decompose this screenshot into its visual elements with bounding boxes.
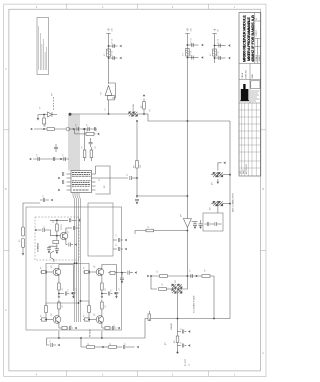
title block outline [239,13,261,176]
node W4 R6 [84,128,86,130]
R5 arrow [94,133,96,135]
node W4 bus [68,128,70,130]
wire [95,346,109,348]
Q1b base wire [40,319,53,321]
svg-text:TCXO: TCXO [61,224,63,230]
node emitter1 [58,293,60,295]
RF out wire from cell2 [108,272,127,274]
wire row y134 [75,133,87,135]
lower row resistor [62,326,67,329]
ground arrow L5 [22,253,25,256]
input wire2 [45,230,60,236]
wire to mixer [167,288,172,290]
node W4 b [73,128,75,130]
wire W1 jog [148,114,230,121]
emitter arrow [75,243,78,246]
node D4 [43,114,45,116]
wire U2 down [186,228,188,277]
D2 label [212,181,214,185]
node emitter2 [101,293,103,295]
B2 right cap2 wire [113,248,117,250]
rail C top sublabel [218,28,220,31]
node y338 c [80,337,82,339]
node W2 rail B [187,195,189,197]
B2 right cap1 wire [113,239,117,241]
feed caps above box [43,198,44,202]
node D3 [229,203,231,205]
node left [150,275,152,277]
D2 down arrow [217,182,220,185]
IC U3 body [71,171,92,193]
wire W1 from U1 node to diode [109,113,129,115]
Q1 emitter wire [65,239,67,245]
title block cage cell divider [239,79,261,81]
wire W3 [135,230,187,232]
TCXO bottom kink wire [51,251,55,262]
wire mixer to railB [183,276,188,289]
staircase ground [72,296,75,299]
bus wires [69,115,79,171]
svg-text:B: B [262,189,264,191]
rail C wire [214,34,216,64]
wire [117,346,123,348]
rail B top tick [185,33,189,35]
node rail A branch2 [108,57,110,59]
emitter resistor [101,283,104,290]
svg-text:Q?: Q? [94,264,96,268]
transistor Q2a [96,268,104,276]
cell labels [51,264,96,316]
svg-text:R?: R? [84,315,86,317]
arrow end [137,346,140,349]
left pin arrows [58,177,61,180]
border zone tick top [66,4,68,9]
svg-text:C?: C? [105,108,107,110]
svg-text:C?: C? [181,342,183,344]
C11 C12 labels [76,123,89,126]
svg-text:RF AMP: RF AMP [89,329,92,337]
small labels right of IC [99,178,106,188]
capacitor C18 [130,176,131,180]
svg-text:3: 3 [102,374,104,376]
Q1a base wire [40,271,53,273]
svg-text:C?: C? [116,244,118,246]
node y338 [58,337,60,339]
U1 output box [107,96,114,100]
wire U1 down [108,100,110,114]
U2 label [181,213,183,217]
Q1b emitter lower row [58,323,60,329]
wire right corner down [213,276,215,319]
wire bottom run [47,319,231,339]
wire branch1 [187,44,198,46]
svg-text:12.8MHZ: 12.8MHZ [38,242,40,252]
notes text lines (rotated illegible) [39,26,47,70]
svg-text:R?: R? [162,283,164,285]
ground arrow [58,344,61,347]
RF out stub cap [121,273,123,277]
node supply [56,219,58,221]
capacitor C13 end [94,127,95,131]
title block divider under title [239,63,261,65]
capacitor C25 [191,274,192,278]
border zone tick top2 [137,4,139,9]
staircase cap C1a [72,288,74,291]
capacitor C9 [193,224,197,225]
lower row cap [67,327,69,329]
svg-text:MV104: MV104 [133,103,135,110]
node base2b [88,319,90,321]
node [102,346,104,348]
Q5 out to bottom wire [101,331,103,338]
resistor R16 [109,346,117,349]
TCXO input arrow [35,229,38,232]
W3 left pin [134,231,136,235]
rail B top sublabel [191,27,193,31]
IC U3 left pin caps [62,172,63,176]
column x137 wire [136,121,138,196]
D3 label [210,206,212,210]
svg-text:ANT CONNECTION: ANT CONNECTION [232,193,235,212]
D3 down stub to box [217,206,219,213]
inductor L4 [21,227,24,236]
revision table [239,103,261,176]
wire in B3 [205,223,208,225]
ground arrow emitter [58,296,61,299]
svg-text:12V: 12V [112,27,114,31]
node W4/R3 [43,128,45,130]
svg-text:B: B [5,189,7,191]
svg-text:1: 1 [234,7,236,9]
R1 label [141,104,143,108]
inductor L1 [107,49,111,57]
border zone tick right2 [260,249,266,251]
resistor R14 left of bottom wire [148,314,151,321]
capacitor C20 [118,238,119,242]
IF labels [171,295,196,366]
node rail C branch2 [214,57,216,59]
border zone tick bottom [66,371,68,377]
ground arrow C20 [125,239,128,242]
Q2a base wire [83,271,96,273]
Q3 out to bottom wire [58,331,60,338]
bus top node [69,113,72,116]
wire W4 (varactor line) [34,128,97,130]
svg-text:12V: 12V [191,27,193,31]
svg-text:L?: L? [210,53,212,56]
svg-text:R?: R? [105,288,107,290]
antenna diode pair D2 [213,173,217,177]
capacitor C22s [69,218,70,222]
D2 left lead [211,174,213,176]
svg-text:C?: C? [43,195,45,197]
emitter resistor [58,283,61,290]
svg-text:C?: C? [63,154,65,156]
input wire [38,229,42,231]
lower row cap [110,327,112,329]
svg-text:R?: R? [105,305,107,307]
Q1a emitter chain [58,275,60,283]
capacitor C5 [219,44,220,48]
TCXO label2 [61,224,63,230]
rail A wire [108,34,110,85]
svg-text:+B: +B [187,28,190,31]
border zone tick top3 [208,4,210,9]
transistor Q1a [53,268,61,276]
Q1a collector staircase [59,265,74,289]
R network to ground (node at 144) [143,113,145,115]
wire branch1 [215,45,226,47]
resistor R8 on column [136,161,139,169]
rail A label +B [108,28,111,31]
Q2a emitter chain [101,275,103,283]
crystal Y1 [56,236,58,241]
ground arrow branch1 [119,45,122,48]
resistor R1 [143,102,146,110]
ground arrow [201,44,204,47]
node column W2 [136,195,138,197]
title text [241,15,255,62]
svg-text:C? .01: C? .01 [218,51,220,56]
wire right edge down [229,121,231,319]
capacitor C12 on W4 [88,127,89,131]
wire loop right of IC [96,166,111,194]
tall box B2 [88,203,113,256]
IC U3 pin stubs right [92,173,96,175]
bus jog to cell2 [77,262,90,264]
node RF out [121,272,123,274]
svg-text:R?: R? [53,221,55,223]
capacitor C22 [47,248,51,249]
logo cell white box [251,81,260,89]
svg-text:R?: R? [62,288,64,290]
inductor L3 [213,49,217,56]
svg-text:Q?: Q? [68,231,70,233]
capacitor C8 in B3 [215,222,216,226]
svg-text:45MHZ IF FOR BANDS A,B: 45MHZ IF FOR BANDS A,B [250,15,255,62]
capacitor C26 [51,343,52,347]
svg-text:R?: R? [41,315,43,317]
U2 side cap wire [192,221,198,223]
svg-text:U?: U? [181,213,183,217]
wire IC to column [96,177,129,179]
svg-text:L?: L? [19,239,21,242]
D2 wire up [218,163,222,171]
svg-text:C? .01: C? .01 [112,51,114,56]
revision table tiny marks [240,163,248,174]
capacitor C27 [123,345,124,349]
title block minicol tiny text [241,18,261,79]
svg-text:2: 2 [172,7,174,9]
wire stub down-left [37,115,39,120]
svg-text:CAGE: CAGE [241,72,244,78]
svg-text:R?: R? [148,226,150,228]
svg-text:C?: C? [44,226,46,228]
svg-text:Q?: Q? [94,312,96,316]
svg-text:Q?: Q? [51,312,53,316]
ground arrow [228,57,231,60]
node bottom right [213,318,215,320]
wire R1 top [143,99,145,102]
wire IC right pins [95,166,97,174]
svg-text:10K: 10K [140,164,142,168]
IF stub cap1 [178,331,182,333]
D2 up arrow [223,162,226,165]
svg-text:R?: R? [165,341,167,345]
L4 label [19,239,21,242]
rail C label [214,28,217,31]
wire branch2 [109,57,118,59]
svg-text:45MHZ: 45MHZ [171,322,173,330]
svg-text:C? .01: C? .01 [112,39,114,44]
resistor R12 [159,288,167,291]
wire L5 down [22,248,24,255]
svg-text:A: A [262,352,264,355]
Q2b bias resistor vertical [88,306,91,313]
ground arrow branch [71,292,74,295]
ground arrow branch [114,292,117,295]
tuning input dashed wire [53,97,55,111]
wire mixer top [151,275,214,277]
svg-text:SIZE: SIZE [252,73,254,78]
staircase cap C2a [115,288,117,291]
capacitor C2 [113,56,114,60]
resistor R10 [160,275,168,278]
node D2 [229,174,231,176]
svg-text:C: C [5,69,7,71]
node [83,128,85,130]
D5 label [175,279,177,282]
node rail B branch1 [187,44,189,46]
wire branch1 [109,45,118,47]
title block divider title/minicol [254,13,256,64]
Q2b base resistor [84,318,89,321]
svg-text:2: 2 [172,374,174,376]
ant connection label [232,193,235,212]
node base1a [45,271,47,273]
inductor L2 [186,49,190,57]
wire in B3 right [217,223,222,225]
node rail B branch2 [187,57,189,59]
title block logo cell divider [239,102,261,104]
wire D4 [38,114,48,116]
border zone tick bottom2 [137,371,139,377]
border outer frame [4,4,266,376]
Q1 collector wire [65,228,67,233]
svg-text:R?: R? [46,122,48,124]
ground arrow C10 [199,227,202,230]
svg-text:C?: C? [76,288,78,290]
svg-text:C?: C? [68,289,70,291]
svg-text:1 OF 2: 1 OF 2 [256,29,258,36]
inductor L5 [21,239,24,248]
svg-text:R?: R? [62,305,64,307]
trimmer circle on W4 [66,127,70,131]
svg-text:B: B [256,18,258,20]
node U2/W3 [187,230,189,232]
svg-text:C?: C? [71,325,73,327]
D3 wire to right edge [223,203,230,205]
svg-text:4: 4 [36,374,38,376]
TCXO rotated label [38,242,40,252]
node IF crossing [177,318,179,320]
wire stub up [143,109,145,114]
RF out stub arrow [121,280,123,282]
transistor Q1 [60,232,68,240]
svg-text:4: 4 [36,7,38,9]
svg-text:APPROVED: APPROVED [245,163,248,174]
svg-text:R?: R? [134,165,136,168]
node base2a [88,271,90,273]
L1 label [104,53,106,56]
resistor R4 on W4 [47,128,55,131]
svg-text:C?: C? [96,129,98,131]
node base1b [45,319,47,321]
wire W2 [137,195,187,197]
node W1-A [108,113,110,115]
capacitor C16 [53,157,54,161]
IF line down from mixer [177,291,179,352]
L3 label [210,53,212,56]
Q2b base wire [83,319,96,321]
rail C top tick [212,33,216,35]
capacitor C23i [43,228,44,232]
resistor R15 [87,346,95,349]
svg-text:DATE: DATE [242,169,245,174]
wire y347 riser [81,338,86,347]
svg-text:VT: VT [51,93,53,96]
svg-text:A: A [5,309,7,312]
Q2a collector staircase [102,265,117,289]
Q1b collector chain [58,309,60,317]
D3 left lead [211,203,213,205]
svg-text:1: 1 [234,374,236,376]
left arrow row [30,158,33,161]
node row [60,158,62,160]
svg-text:C?: C? [181,328,183,330]
R3 vertical from D4 node [43,115,45,119]
capacitor C4 [192,56,193,60]
svg-text:C?: C? [37,154,39,156]
D1 label [133,103,135,110]
bus top wire to W1 [69,113,109,115]
svg-text:R?: R? [110,343,112,345]
svg-text:R?: R? [157,270,159,272]
staircase ground [115,296,118,299]
ground arrow C19 [136,202,139,205]
mixer input arrow [147,275,150,278]
R8 label [134,165,136,168]
svg-text:+5: +5 [214,28,217,31]
U1 label [101,91,103,95]
ground arrow supply [78,219,81,222]
rail B label +B [187,28,190,31]
regulator U1 triangle [105,86,112,96]
Q2b collector chain [101,309,103,317]
logo cell tiny text lines [251,91,260,101]
bottom rotated labels [89,329,168,345]
node W1-B rail [187,120,189,122]
svg-text:C?: C? [87,123,89,126]
IF stub cap2 [178,345,182,347]
svg-text:C?: C? [50,340,52,342]
capacitor C6 [219,56,220,60]
resistor R7 vertical [90,150,93,158]
Q2b emitter lower row [101,323,103,329]
svg-text:R?: R? [150,109,152,111]
svg-text:C? .01: C? .01 [218,39,220,44]
lower row arrow [118,327,121,330]
